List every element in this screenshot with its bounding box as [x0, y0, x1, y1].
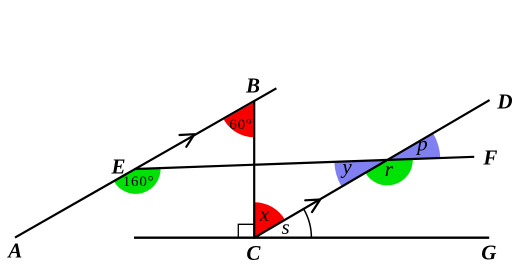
angle x red sector at C	[254, 202, 285, 238]
svg-text:y: y	[340, 155, 352, 179]
svg-text:x: x	[259, 202, 270, 226]
right angle square at C	[238, 224, 253, 237]
svg-text:60°: 60°	[229, 117, 252, 133]
line E to F	[136, 157, 475, 169]
angle 60deg red sector at B	[224, 102, 254, 137]
svg-text:r: r	[385, 157, 394, 181]
svg-text:160°: 160°	[123, 174, 155, 190]
svg-text:s: s	[282, 215, 290, 239]
angle s arc at C	[304, 209, 312, 238]
angle p blue sector at crossing of CD and EF	[387, 133, 440, 160]
line A to B (transversal through E)	[15, 88, 276, 237]
svg-text:B: B	[245, 74, 260, 98]
svg-text:G: G	[481, 241, 496, 265]
svg-text:C: C	[246, 241, 261, 265]
svg-text:p: p	[415, 131, 428, 155]
angle 160deg green sector at E	[114, 168, 161, 194]
line B to C (vertical)	[253, 101, 255, 239]
angle y blue sector at crossing of CD and EF	[334, 160, 387, 187]
angle r green sector at crossing of CD and EF	[365, 159, 413, 185]
bottom horizontal line through C to G	[134, 236, 489, 238]
svg-text:A: A	[6, 238, 22, 262]
line C to D	[254, 100, 489, 238]
arrow head on line AB	[180, 134, 195, 147]
svg-text:D: D	[496, 89, 512, 113]
svg-text:F: F	[482, 145, 497, 169]
arrow head on line CD	[305, 200, 320, 213]
